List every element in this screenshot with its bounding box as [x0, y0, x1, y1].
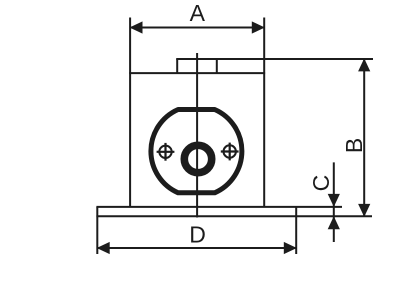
arrowhead D right — [284, 242, 297, 254]
svg-text:D: D — [189, 222, 206, 248]
arrowhead C bottom (points up) — [328, 216, 340, 229]
centerline — [196, 53, 198, 218]
svg-text:B: B — [341, 138, 367, 153]
arrowhead A right — [252, 21, 265, 33]
dimension line C — [333, 162, 335, 242]
left screw symbol — [157, 143, 175, 161]
central bore ring — [184, 145, 211, 172]
svg-text:A: A — [190, 0, 206, 26]
base bottom line + B/C extension line — [96, 215, 372, 217]
dimension line D — [97, 247, 296, 249]
arrowhead B bottom — [358, 204, 370, 217]
arrowhead A left — [130, 21, 143, 33]
dimension line A — [130, 27, 264, 29]
base left edge + D extension line — [96, 207, 98, 254]
base top line + C extension line — [96, 206, 342, 208]
body top line — [129, 72, 265, 74]
dimension line B — [363, 59, 365, 216]
tab left edge — [176, 59, 178, 73]
svg-text:C: C — [308, 175, 334, 192]
body right edge + A extension line — [263, 18, 265, 207]
octagonal housing face — [151, 110, 242, 193]
arrowhead C top (points down) — [328, 194, 340, 207]
right screw symbol — [221, 143, 239, 161]
tab top line + B extension line — [176, 58, 373, 60]
tab right edge — [216, 59, 218, 73]
base right edge + D extension line — [295, 207, 297, 254]
arrowhead D left — [97, 242, 110, 254]
arrowhead B top — [358, 58, 370, 71]
body left edge + A extension line — [129, 18, 131, 207]
